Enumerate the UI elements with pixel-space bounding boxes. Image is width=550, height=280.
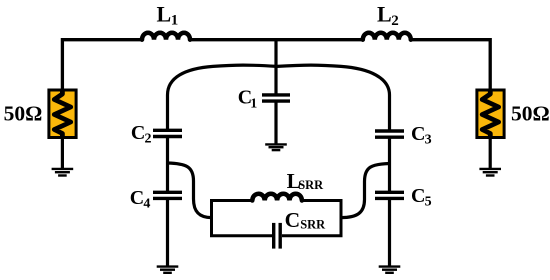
wire: C1 to ground [274,102,277,144]
inductor LSRR [252,194,302,201]
wire: S-curve from C3/C5 node to SRR box right [341,164,390,218]
svg-text:1: 1 [171,13,179,29]
wire: top bus left segment [62,40,142,92]
wire: top bus middle segment [190,38,363,41]
wire: left resistor to ground [61,138,64,169]
wire: top bus right segment [411,40,490,92]
wire: center column top (node to C1) [274,40,277,94]
svg-text:3: 3 [425,133,432,148]
wire: C2 to C4 [166,138,169,192]
ground under C1 [265,144,287,150]
ground under C4 [157,267,179,273]
svg-text:L: L [377,2,392,27]
svg-text:2: 2 [145,132,152,147]
inductor L1 [142,33,190,40]
ground under right resistor [479,169,501,176]
wire: curved branch from node to C2 and C3 tops [168,65,390,130]
svg-text:C: C [411,185,425,207]
svg-text:C: C [130,187,144,209]
wire: C5 to ground [388,199,391,265]
resistor R1 (left 50 ohm) [49,90,76,138]
capacitor CSRR [274,223,281,249]
inductor L2 [363,33,411,40]
wire: C4 to ground [166,199,169,265]
capacitor C3 [375,131,404,137]
svg-text:4: 4 [143,197,150,212]
wire: S-curve from C2/C4 node to SRR box left [168,163,212,218]
svg-text:SRR: SRR [298,178,324,192]
svg-text:50Ω: 50Ω [511,102,550,126]
svg-text:1: 1 [250,96,257,111]
svg-text:L: L [157,1,172,26]
capacitor C4 [153,192,182,198]
svg-text:C: C [131,122,145,144]
wire: right resistor to ground [489,138,492,169]
ground under left resistor [52,169,74,176]
svg-text:C: C [411,123,425,145]
capacitor C2 [153,130,182,136]
svg-text:50Ω: 50Ω [4,102,43,126]
svg-text:SRR: SRR [300,217,326,231]
SRR resonator box [212,201,342,236]
ground under C5 [379,267,401,273]
svg-text:C: C [285,208,301,232]
capacitor C5 [375,192,404,198]
capacitor C1 [262,95,290,101]
resistor R2 (right 50 ohm) [477,90,504,138]
wire: C3 to C5 [388,138,391,192]
svg-text:2: 2 [391,13,399,29]
svg-text:5: 5 [425,195,432,210]
